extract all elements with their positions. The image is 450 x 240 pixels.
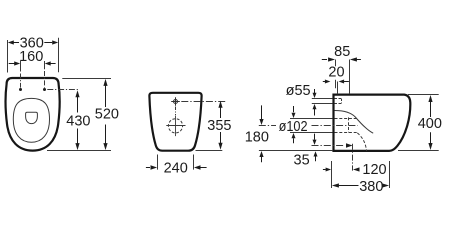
pan outline (top view) [6, 78, 60, 151]
svg-text:ø102: ø102 [279, 119, 308, 135]
20 extension [337, 82, 339, 95]
svg-text:180: 180 [245, 129, 269, 145]
dimension 355 [220, 107, 222, 143]
dimension 400 [430, 102, 432, 118]
svg-text:120: 120 [362, 162, 386, 178]
inlet lines ø55 [312, 99, 333, 104]
extension line right (360) [58, 38, 60, 73]
hidden outlet pipe bottom (dashed) [335, 132, 357, 134]
centerline hole right [44, 71, 46, 88]
centerline hole left [20, 74, 22, 88]
85 extension right [349, 60, 351, 95]
svg-text:430: 430 [66, 113, 90, 129]
flow arrow on centerline [346, 143, 353, 147]
svg-text:355: 355 [207, 118, 231, 134]
dimension 120 [323, 169, 326, 171]
svg-text:400: 400 [418, 116, 442, 132]
svg-text:520: 520 [95, 107, 119, 123]
hidden inlet hole (dashed) [335, 99, 342, 104]
outlet position centerline horizontal [312, 145, 346, 147]
svg-text:35: 35 [294, 153, 310, 169]
dimension 85 [322, 59, 327, 61]
ø102 axis centerline [259, 125, 276, 127]
centerline horizontal to 430 [47, 89, 79, 91]
centerline from inlet to 355 [181, 101, 227, 103]
svg-text:160: 160 [19, 49, 43, 65]
dimension 160 [9, 63, 56, 65]
inner water area [26, 112, 38, 123]
svg-text:85: 85 [334, 44, 350, 60]
extension tick hole right [44, 61, 46, 69]
dimension 240 [146, 167, 150, 169]
svg-text:20: 20 [328, 65, 344, 81]
dimension 180 [261, 105, 263, 119]
small inlet hole symbol [171, 97, 180, 106]
svg-text:ø55: ø55 [286, 83, 311, 99]
vertical centerline between holes [175, 107, 177, 116]
extension top (520) [62, 78, 111, 80]
outlet cross [166, 116, 185, 136]
outlet vertical centerline [352, 144, 354, 171]
hidden pipe vertical (dashed) [348, 117, 350, 132]
svg-text:380: 380 [359, 179, 383, 195]
dimension 20 [323, 81, 325, 83]
extension bottom (430/520) [47, 150, 111, 152]
pan outline (side view) [334, 95, 411, 151]
extension bottom (400) [398, 150, 439, 152]
extension tick hole left [20, 61, 22, 72]
outlet circle (hidden) [168, 119, 182, 133]
extension bottom right (355) [196, 150, 223, 152]
dimension 360 [13, 42, 52, 44]
extension top (400) [408, 94, 439, 96]
dimension 430 [77, 97, 79, 145]
svg-text:240: 240 [164, 161, 188, 177]
extension lines 380 [332, 161, 390, 188]
hidden outlet pipe top (dashed) [335, 118, 357, 120]
extension lines 240 [158, 155, 194, 170]
fixing hole dot right [43, 88, 46, 91]
fixing hole dot left [19, 88, 22, 91]
ø55 arrows [314, 89, 316, 93]
dimension 380 [332, 183, 339, 187]
dimension 520 [105, 86, 107, 146]
inner bowl curve [335, 111, 374, 134]
pan outline (front view) [149, 93, 201, 151]
hidden trap curve (dashed) [357, 133, 366, 151]
outlet lines ø102 [290, 119, 333, 133]
seat ring [13, 98, 49, 142]
85 extension left [335, 60, 337, 89]
floor extension line [259, 150, 333, 152]
extension line left (360) [7, 40, 9, 73]
ø102 arrows [293, 106, 295, 112]
